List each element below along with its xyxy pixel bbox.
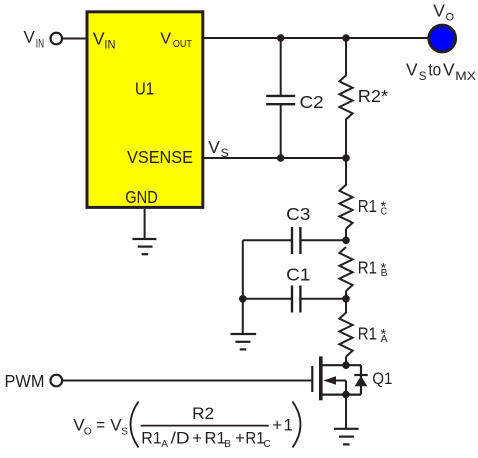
node VIN label [24, 28, 45, 51]
label R1C* [358, 196, 388, 218]
svg-text:C1: C1 [286, 265, 310, 285]
svg-text:V: V [443, 60, 455, 80]
wire R1B to node C1 [345, 291, 347, 299]
svg-text:MX: MX [455, 69, 476, 83]
label R1A* [358, 324, 388, 346]
regulator U1 body [87, 12, 203, 208]
junction Q1 source [342, 391, 350, 399]
wire VIN terminal to U1 pin VIN [63, 38, 86, 40]
ground Q1 source [334, 429, 359, 445]
junction VSENSE / C2 [277, 154, 285, 162]
junction VSENSE / R branch [342, 154, 350, 162]
resistor R1C [339, 185, 352, 229]
svg-text:+: + [272, 415, 282, 434]
wire VSENSE to R1C [345, 158, 347, 185]
wire VSENSE to divider [203, 157, 346, 159]
svg-text:/D: /D [171, 429, 190, 448]
svg-text:V: V [160, 30, 171, 47]
node VS label [208, 137, 228, 160]
wire C3 right plate to junction [300, 239, 346, 241]
junction top wire / C2 [277, 34, 285, 42]
svg-text:V: V [208, 137, 220, 157]
svg-text:R2*: R2* [358, 86, 388, 106]
wire C1 right plate to junction [300, 298, 346, 300]
svg-text:A: A [161, 439, 168, 450]
svg-text:C2: C2 [300, 92, 324, 112]
svg-text:C: C [263, 439, 270, 450]
svg-text:S: S [121, 426, 128, 437]
capacitor C3 [292, 227, 300, 254]
svg-text:IN: IN [36, 36, 44, 50]
svg-text:R1: R1 [141, 429, 161, 448]
svg-text:V: V [24, 28, 36, 47]
svg-text:Q1: Q1 [372, 369, 392, 388]
resistor R2 [339, 75, 352, 119]
wire VOUT to output terminal [203, 37, 428, 39]
svg-text:U1: U1 [135, 78, 154, 98]
wire R1A top [345, 299, 347, 313]
svg-text:OUT: OUT [173, 38, 192, 50]
wire R2 to VSENSE net [345, 119, 347, 158]
svg-text:R1: R1 [358, 324, 377, 344]
svg-text:C: C [381, 205, 388, 217]
terminal VIN [51, 33, 63, 45]
junction R1B/R1A/C1 [342, 295, 350, 303]
formula VO = VS (R2/(R1A/D+R1B+R1C)+1) [73, 402, 300, 451]
ground left branch [231, 334, 257, 349]
junction left branch / C1 [239, 295, 247, 303]
svg-text:V: V [433, 1, 445, 21]
svg-text:=: = [96, 415, 105, 434]
wire U1 GND pin to ground [144, 209, 146, 239]
wire C1 left plate to left branch [243, 298, 292, 300]
resistor R1A [339, 313, 352, 357]
pin label VIN [93, 29, 116, 52]
svg-text:GND: GND [125, 187, 158, 207]
svg-text:B: B [381, 267, 388, 279]
node VO label [433, 1, 454, 24]
svg-text:V: V [406, 60, 418, 80]
terminal PWM [51, 375, 63, 387]
svg-text:IN: IN [104, 37, 115, 51]
junction R1C/R1B/C3 [342, 237, 350, 245]
svg-text:S: S [221, 146, 229, 160]
wire left branch vertical [242, 240, 244, 334]
svg-text:+: + [192, 429, 202, 448]
wire PWM to Q1 gate [63, 380, 311, 382]
svg-text:VSENSE: VSENSE [127, 147, 193, 167]
svg-text:B: B [224, 439, 231, 450]
junction Q1 drain [342, 361, 350, 369]
junction top wire / R2 [342, 34, 350, 42]
svg-text:R1: R1 [358, 258, 377, 278]
svg-text:1: 1 [284, 415, 293, 434]
wire C2 to VSENSE net [280, 105, 282, 158]
svg-text:+: + [235, 429, 245, 448]
wire top to C2 [280, 38, 282, 95]
svg-text:PWM: PWM [5, 371, 45, 391]
note VS to VMX [406, 60, 476, 83]
wire Q1 source to ground [345, 395, 347, 429]
wire R1C to node C3 [345, 229, 347, 241]
svg-text:A: A [381, 333, 388, 345]
capacitor C1 [292, 286, 300, 313]
wire C3 left plate to left branch [243, 239, 292, 241]
wire top to R2 [345, 38, 347, 76]
svg-text:S: S [419, 71, 427, 83]
wire R1A to Q1 drain [345, 357, 347, 366]
svg-text:R1: R1 [358, 196, 377, 216]
ground U1 [133, 239, 157, 254]
svg-text:V: V [93, 29, 105, 49]
svg-text:R1: R1 [245, 429, 264, 448]
svg-text:O: O [84, 426, 92, 437]
resistor R1B [339, 247, 352, 291]
transistor Q1 [312, 356, 361, 400]
terminal VO (output) [429, 25, 456, 52]
svg-text:O: O [446, 12, 455, 24]
svg-text:C3: C3 [286, 204, 310, 224]
svg-text:R1: R1 [205, 429, 226, 448]
svg-text:R2: R2 [192, 404, 214, 423]
body diode of Q1 [354, 375, 367, 386]
pin label VOUT [160, 30, 192, 50]
svg-text:to: to [428, 60, 441, 80]
label R1B* [358, 258, 388, 280]
capacitor C2 [266, 96, 295, 104]
